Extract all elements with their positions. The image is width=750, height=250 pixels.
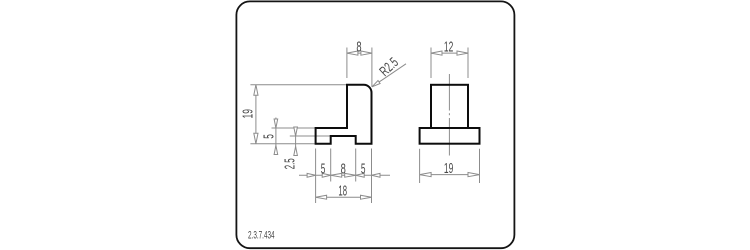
svg-text:5: 5 — [262, 134, 278, 139]
svg-text:8: 8 — [341, 162, 346, 178]
dim 19 extension line right — [479, 149, 481, 183]
dim 19 line — [255, 85, 257, 144]
svg-text:19: 19 — [444, 161, 453, 177]
extension line: notch top (dim 2.5) — [290, 135, 331, 137]
extension line: bottom of part (dims 19 and 5) — [250, 143, 315, 145]
left view part outline — [316, 85, 372, 144]
svg-text:18: 18 — [338, 184, 347, 200]
dim 8 arrow left — [347, 51, 358, 55]
svg-text:2.3.7.434: 2.3.7.434 — [248, 229, 275, 241]
extension line: top of part (dim 19) — [250, 84, 347, 86]
right view base rect — [420, 128, 480, 144]
leader R2.5 arrow — [372, 81, 380, 87]
svg-text:8: 8 — [356, 39, 361, 55]
dim 18 line — [316, 196, 372, 198]
extension line: base top (dim 5) — [272, 127, 316, 129]
chained dims extension line 2 — [330, 149, 332, 182]
dim 19 arrow right — [468, 173, 480, 177]
dim 8 arrow right — [361, 51, 372, 55]
dim 12 arrow right — [457, 51, 468, 55]
dim 19 line — [420, 174, 480, 176]
dim 2.5 line — [295, 127, 297, 156]
svg-text:19: 19 — [240, 109, 256, 118]
dim 2.5 arrow down (above notch top) — [294, 127, 298, 136]
dim 18 arrow right — [361, 195, 372, 199]
dim 5 arrow up (below base bottom) — [274, 146, 278, 155]
dim 19 arrow left — [420, 173, 432, 177]
sheet frame (rounded border) — [236, 1, 514, 248]
chain arrows at line2 — [322, 173, 331, 177]
chained dims extension line 1 — [315, 149, 317, 204]
chained dims extension line 3 — [355, 149, 357, 182]
dim 8 extension line right — [371, 48, 373, 87]
dim 19 arrow down — [254, 133, 258, 144]
svg-text:12: 12 — [444, 39, 453, 55]
dim 12 line — [431, 52, 468, 54]
dim 18 arrow left — [316, 195, 327, 199]
svg-text:2.5: 2.5 — [283, 158, 299, 169]
dim 5 arrow down (above base top) — [274, 119, 278, 128]
dim 12 arrow left — [431, 51, 442, 55]
chain arrow right at line1 — [307, 173, 316, 177]
dim 8 line — [347, 52, 372, 54]
svg-text:5: 5 — [361, 162, 366, 178]
right view column rect — [431, 85, 468, 128]
dim 5 line — [275, 118, 277, 155]
chain arrow left at line4 — [372, 173, 381, 177]
svg-text:5: 5 — [321, 162, 326, 178]
dim 12 extension line left — [430, 48, 432, 79]
center line — [448, 74, 450, 111]
dim 8 extension line left — [346, 48, 348, 79]
chain arrows at line3 — [345, 173, 356, 177]
dim 12 extension line right — [467, 48, 469, 79]
leader R2.5 line — [372, 64, 406, 87]
dim 19 arrow up — [254, 85, 258, 96]
dim 19 (base width) extension line left — [419, 149, 421, 183]
chained dim line 5/8/5 — [299, 174, 390, 176]
dim 2.5 arrow up (below base bottom) — [294, 147, 298, 156]
chained dims extension line 4 — [371, 149, 373, 204]
